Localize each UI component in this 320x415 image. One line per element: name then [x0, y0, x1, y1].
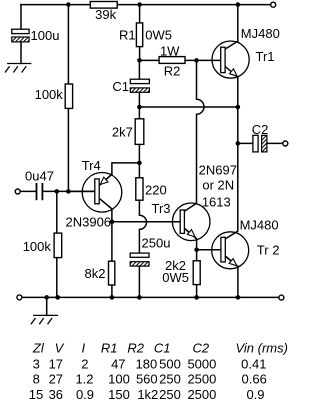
transistor Tr1 MJ480: [212, 41, 249, 78]
capacitor C2: [253, 135, 267, 152]
svg-text:150: 150: [108, 387, 130, 402]
svg-text:27: 27: [49, 372, 63, 387]
wire input terminal to 0u47: [20, 190, 35, 192]
junction rail / 250u: [137, 295, 142, 300]
wire 100k-upper column: [67, 5, 69, 192]
wire Tr1 base: [197, 59, 222, 61]
svg-text:180: 180: [136, 356, 158, 371]
wire Tr2 emitter to rail: [225, 256, 238, 297]
wire C2 right lead to output terminal: [267, 142, 283, 144]
terminal input: [15, 189, 20, 194]
wire bottom rail: [22, 296, 279, 298]
svg-text:2500: 2500: [187, 387, 216, 402]
resistor 220: [136, 178, 143, 200]
svg-text:100k: 100k: [23, 239, 52, 254]
table header row: [32, 340, 288, 355]
svg-text:Vin (rms): Vin (rms): [235, 340, 287, 355]
svg-text:220: 220: [145, 182, 167, 197]
svg-text:I: I: [81, 340, 85, 355]
wire Tr2 base: [197, 249, 221, 251]
junction rail / 2k2: [194, 295, 199, 300]
svg-text:Zl: Zl: [32, 340, 45, 355]
svg-text:R1: R1: [101, 340, 118, 355]
svg-text:or 2N: or 2N: [202, 178, 234, 193]
junction C1 bottom: [137, 105, 142, 110]
svg-text:R1: R1: [119, 28, 136, 43]
svg-text:8k2: 8k2: [85, 266, 106, 281]
svg-text:R2: R2: [127, 340, 144, 355]
svg-text:2500: 2500: [187, 372, 216, 387]
junction rail / 8k2: [110, 295, 115, 300]
wire Tr4 base: [68, 190, 94, 192]
junction Tr4 collector node: [110, 220, 115, 225]
junction rail / Tr2 emitter: [236, 295, 241, 300]
svg-text:0.9: 0.9: [76, 387, 94, 402]
svg-text:100u: 100u: [31, 28, 60, 43]
transistor Tr3 2N697: [172, 203, 210, 241]
svg-text:17: 17: [49, 356, 63, 371]
svg-text:MJ480: MJ480: [240, 218, 279, 233]
junction top rail / R1: [137, 2, 142, 7]
resistor 39k: [90, 2, 117, 9]
svg-text:15: 15: [29, 387, 43, 402]
svg-text:1613: 1613: [202, 195, 231, 210]
transistor Tr2 MJ480: [212, 232, 249, 269]
svg-text:C1: C1: [112, 79, 129, 94]
svg-text:0.9: 0.9: [246, 387, 264, 402]
table data row 1: [33, 356, 267, 371]
svg-text:R2: R2: [164, 64, 181, 79]
svg-text:100k: 100k: [35, 87, 64, 102]
svg-text:0.41: 0.41: [241, 356, 266, 371]
resistor R1: [136, 23, 142, 47]
svg-text:Tr1: Tr1: [256, 49, 275, 64]
svg-text:V: V: [55, 340, 65, 355]
svg-text:39k: 39k: [95, 7, 116, 22]
terminal supply positive: [271, 2, 276, 7]
wire C2 left lead: [238, 142, 253, 144]
junction Tr1 emitter row: [236, 105, 241, 110]
capacitor 250u: [130, 253, 149, 266]
junction input / 100k lower: [55, 189, 60, 194]
resistor 8k2: [109, 261, 115, 285]
svg-text:2N3906: 2N3906: [66, 214, 112, 229]
svg-text:0.66: 0.66: [242, 372, 267, 387]
wire top supply rail: [21, 4, 271, 6]
junction top rail / Tr1 collector: [236, 2, 241, 7]
junction R1 bottom node: [137, 58, 142, 63]
wire Tr1 emitter down to Tr2 collector: [225, 77, 238, 239]
junction Tr3 emitter / 2k2 / Tr2 base: [194, 248, 199, 253]
svg-text:2: 2: [81, 356, 88, 371]
wire C1 bottom to 2k7 to 220: [138, 92, 140, 200]
svg-text:560: 560: [136, 372, 158, 387]
terminal bottom left: [17, 295, 22, 300]
junction 2k7 / 220 / Tr4 emitter: [137, 161, 142, 166]
svg-text:250: 250: [159, 372, 181, 387]
svg-text:0W5: 0W5: [162, 270, 189, 285]
wire 220 hop over Tr4 collector wire: [139, 200, 146, 253]
resistor 2k2: [193, 261, 200, 285]
svg-text:0u47: 0u47: [25, 168, 54, 183]
junction C2 tap: [236, 141, 241, 146]
resistor R2: [159, 57, 185, 64]
wire R1 column: [139, 5, 141, 61]
table data row 2: [33, 372, 267, 387]
junction 100k upper / Tr4 base: [66, 189, 71, 194]
svg-text:Tr3: Tr3: [152, 201, 171, 216]
svg-text:C2: C2: [192, 340, 209, 355]
transistor Tr4 2N3906: [82, 173, 122, 213]
junction rail / 100k lower: [55, 295, 60, 300]
svg-text:0W5: 0W5: [145, 28, 172, 43]
svg-text:C2: C2: [252, 122, 269, 137]
junction R2 right / Tr1 base: [194, 58, 199, 63]
wire 250u to bottom rail: [138, 266, 140, 297]
svg-text:2N697: 2N697: [199, 163, 237, 178]
svg-text:Tr4: Tr4: [82, 158, 101, 173]
resistor 100k upper: [65, 84, 72, 108]
resistor 100k lower: [54, 233, 62, 258]
svg-text:5000: 5000: [187, 356, 216, 371]
svg-text:MJ480: MJ480: [241, 26, 280, 41]
table data row 3: [29, 387, 265, 402]
wire bottom ground drop: [46, 297, 48, 315]
svg-text:1k2: 1k2: [137, 387, 158, 402]
terminal output C2: [283, 141, 288, 146]
wire R2 row: [140, 59, 197, 61]
capacitor 0u47: [37, 183, 43, 200]
wire C1 top lead: [138, 60, 140, 79]
svg-text:250: 250: [159, 387, 181, 402]
ground bottom: [31, 315, 58, 324]
wire Tr3 emitter to 2k2 and rail: [184, 228, 196, 297]
capacitor C1: [130, 79, 149, 92]
wire Tr4 collector to Tr3 base: [112, 221, 180, 223]
resistor 2k7: [135, 119, 144, 145]
wire Tr1-base node down to Tr3 collector with hop: [184, 60, 204, 211]
terminal bottom right: [279, 295, 284, 300]
wire 100k-lower column: [56, 191, 58, 297]
wire Tr4 emitter to 2k7/220 node: [99, 163, 139, 186]
svg-text:250u: 250u: [142, 236, 171, 251]
svg-text:2k7: 2k7: [112, 125, 133, 140]
svg-text:3: 3: [33, 356, 40, 371]
wire node C1-bottom to Tr1 emitter: [139, 106, 237, 108]
junction top rail / 100k column: [66, 2, 71, 7]
capacitor 100u: [12, 29, 29, 42]
svg-text:500: 500: [159, 356, 181, 371]
wire 100u drop from rail: [20, 5, 22, 30]
wire Tr1 collector from rail: [226, 5, 238, 49]
svg-text:100: 100: [108, 372, 130, 387]
junction rail / ground: [44, 295, 49, 300]
svg-text:C1: C1: [154, 340, 171, 355]
svg-text:Tr 2: Tr 2: [257, 242, 280, 257]
wire 0u47 to Tr4 base node: [43, 190, 94, 192]
wire Tr4 collector down to 8k2 and rail: [99, 198, 112, 297]
wire 100u to ground: [20, 42, 22, 64]
ground top-left: [5, 64, 31, 73]
svg-text:47: 47: [111, 356, 125, 371]
svg-text:8: 8: [33, 372, 40, 387]
svg-text:1.2: 1.2: [75, 372, 93, 387]
svg-text:1W: 1W: [160, 44, 180, 59]
svg-text:36: 36: [49, 387, 63, 402]
